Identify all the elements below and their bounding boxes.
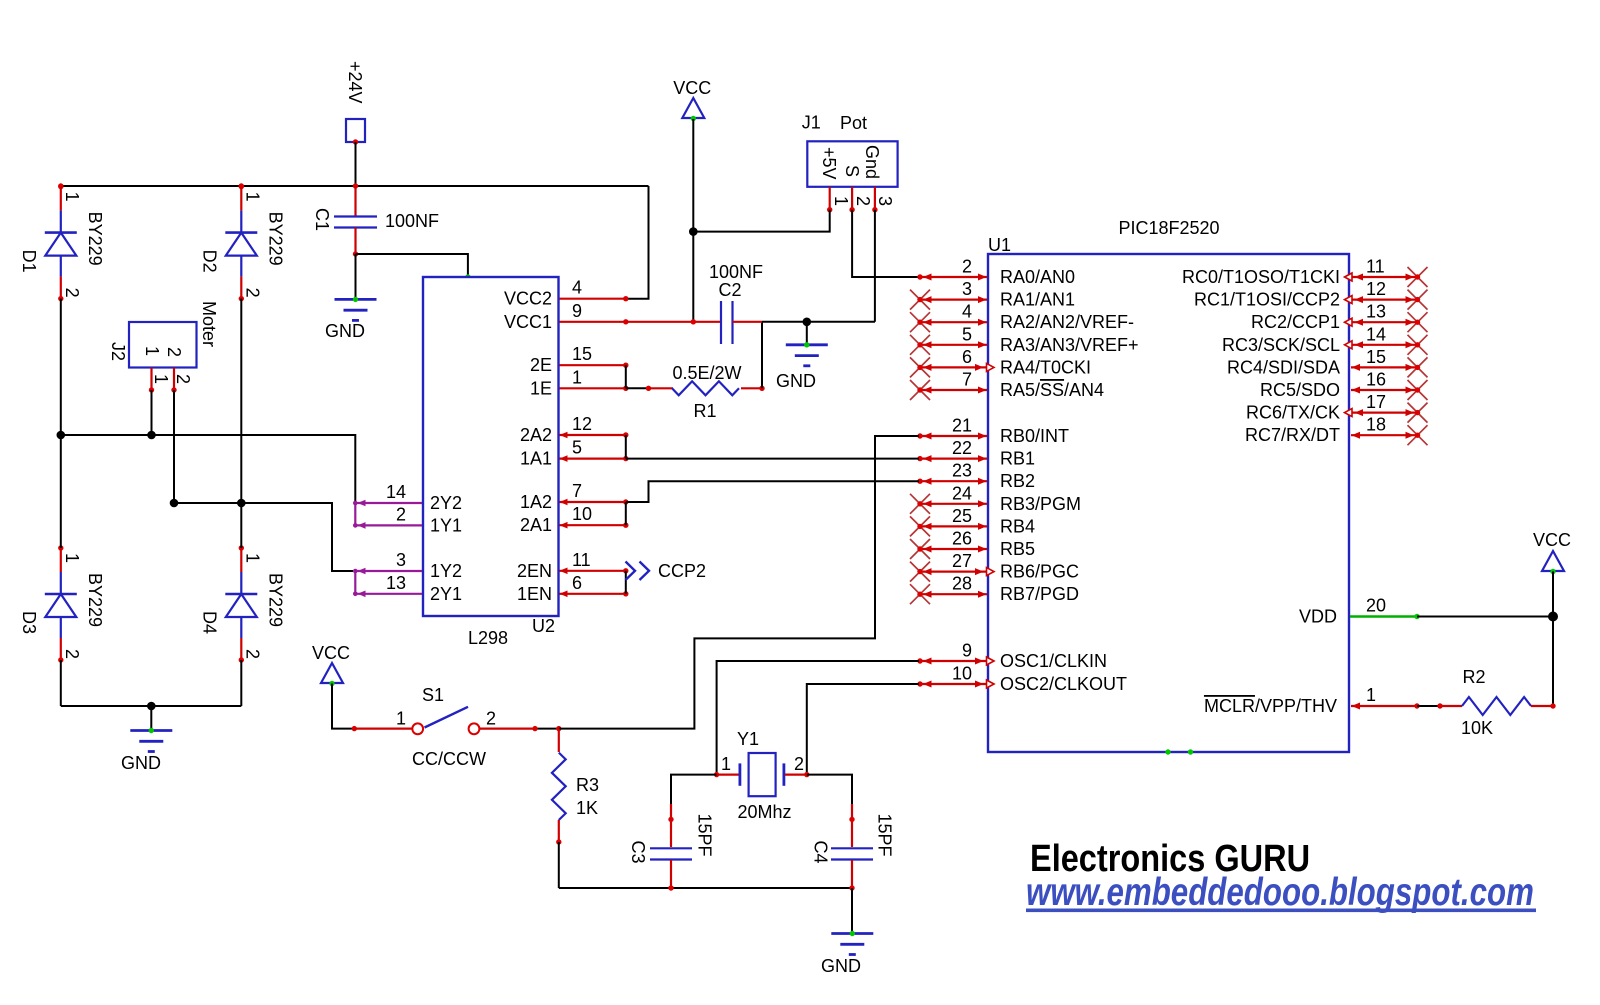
U1 pin 20 VDD (1299, 596, 1420, 627)
diode D2 BY229 (199, 184, 285, 301)
svg-text:25: 25 (952, 506, 972, 526)
wire 1A2-2A1 tie (625, 502, 627, 525)
wire 2Y2-1Y1 tie (354, 503, 356, 525)
svg-text:RB1: RB1 (1000, 449, 1035, 469)
svg-text:BY229: BY229 (265, 573, 285, 627)
wire VCC down (689, 119, 698, 324)
IC U2 L298 body (423, 277, 559, 648)
wire RB2 to 1A2 (626, 481, 919, 502)
svg-text:Moter: Moter (199, 301, 219, 347)
U1 pin 18 RC7 (1245, 415, 1428, 446)
U2 pin 10 2A1 (520, 504, 629, 535)
U2 pin 12 2A2 (520, 414, 629, 445)
capacitor C1 100NF (312, 186, 439, 257)
wire 1Y2-2Y1 tie (354, 571, 356, 594)
svg-text:U1: U1 (988, 235, 1011, 255)
svg-text:2: 2 (62, 649, 82, 659)
svg-text:BY229: BY229 (265, 212, 285, 266)
svg-text:GND: GND (776, 371, 816, 391)
svg-text:J2: J2 (108, 342, 128, 361)
svg-text:VCC1: VCC1 (504, 312, 552, 332)
svg-text:1: 1 (1366, 685, 1376, 705)
svg-text:OSC1/CLKIN: OSC1/CLKIN (1000, 651, 1107, 671)
svg-text:R1: R1 (693, 401, 716, 421)
svg-text:RC5/SDO: RC5/SDO (1260, 380, 1340, 400)
wire OSC2 to crystal (807, 684, 919, 773)
svg-text:12: 12 (572, 414, 592, 434)
U2 pin 15 2E (530, 344, 629, 375)
wire VCC2 tie 2E/1E (625, 365, 627, 388)
U1 pin 11 RC0 (1182, 257, 1428, 288)
ground bottom (821, 931, 873, 976)
svg-text:10K: 10K (1461, 718, 1493, 738)
wire 1E to R1 (626, 386, 651, 391)
U1 pin 25 RB4 (910, 506, 1035, 537)
logo url underline (1026, 909, 1536, 913)
connector J2 Moter (108, 301, 219, 393)
crystal Y1 20Mhz (714, 729, 810, 822)
diode D3 BY229 (19, 545, 105, 662)
power flag VCC top (673, 78, 711, 121)
U1 pin 21 RB0 (917, 416, 1069, 447)
label CCP2 chevrons (626, 561, 707, 581)
svg-text:RB0/INT: RB0/INT (1000, 426, 1069, 446)
svg-text:S1: S1 (422, 685, 444, 705)
svg-text:RC3/SCK/SCL: RC3/SCK/SCL (1222, 335, 1340, 355)
svg-text:2: 2 (396, 504, 406, 524)
svg-text:1: 1 (62, 553, 82, 563)
U1 pin 1 MCLR (1204, 685, 1420, 716)
U2 pin 5 1A1 (520, 438, 629, 469)
U1 pin 28 RB7 (910, 574, 1079, 605)
svg-text:D4: D4 (199, 611, 219, 634)
capacitor C2 100NF (626, 262, 763, 344)
U1 pin 22 RB1 (917, 438, 1035, 469)
svg-text:GND: GND (821, 956, 861, 976)
svg-text:2: 2 (242, 649, 262, 659)
ground bottom-left (121, 728, 172, 773)
svg-text:1K: 1K (576, 798, 598, 818)
ground near C2 (806, 322, 808, 345)
svg-text:2: 2 (486, 709, 496, 729)
svg-text:24: 24 (952, 483, 972, 503)
wire S1 to RB0 net (559, 436, 919, 729)
U1 pin 26 RB5 (910, 529, 1035, 560)
svg-text:RA3/AN3/VREF+: RA3/AN3/VREF+ (1000, 335, 1139, 355)
svg-text:9: 9 (572, 301, 582, 321)
svg-text:L298: L298 (468, 628, 508, 648)
svg-text:2: 2 (62, 288, 82, 298)
svg-text:RA1/AN1: RA1/AN1 (1000, 290, 1075, 310)
svg-text:14: 14 (386, 482, 406, 502)
svg-text:www.embeddedooo.blogspot.com: www.embeddedooo.blogspot.com (1026, 871, 1534, 914)
U1 pin 5 RA3 (910, 324, 1139, 355)
svg-text:BY229: BY229 (85, 573, 105, 627)
U1 pin 23 RB2 (917, 461, 1035, 492)
wire C1 to L298 top (356, 254, 471, 280)
svg-text:4: 4 (572, 278, 582, 298)
svg-text:C4: C4 (811, 841, 831, 864)
U1 pin 6 RA4 (910, 347, 1091, 378)
wire R3 to bottom rail (559, 842, 852, 888)
U2 pin 2 1Y1 (353, 504, 462, 535)
svg-text:1: 1 (242, 192, 262, 202)
svg-text:Y1: Y1 (737, 729, 759, 749)
svg-text:2EN: 2EN (517, 561, 552, 581)
U2 pin 14 2Y2 (353, 482, 462, 513)
svg-text:21: 21 (952, 416, 972, 436)
svg-text:+5V: +5V (819, 147, 839, 180)
U1 pin 13 RC2 (1251, 302, 1428, 333)
svg-text:CC/CCW: CC/CCW (412, 749, 486, 769)
svg-text:1: 1 (572, 367, 582, 387)
power flag +24V (345, 61, 365, 145)
wire J1 pin3 to gnd line (874, 210, 876, 322)
svg-text:C2: C2 (718, 280, 741, 300)
wire C1 to ground (355, 254, 357, 299)
U1 pin 15 RC4 (1227, 347, 1428, 378)
svg-text:RC0/T1OSO/T1CKI: RC0/T1OSO/T1CKI (1182, 267, 1340, 287)
svg-text:100NF: 100NF (385, 211, 439, 231)
svg-text:23: 23 (952, 461, 972, 481)
svg-text:RA5/SS/AN4: RA5/SS/AN4 (1000, 380, 1104, 400)
svg-text:VCC: VCC (1533, 530, 1571, 550)
svg-text:Pot: Pot (840, 113, 867, 133)
svg-text:2: 2 (173, 374, 193, 384)
svg-text:15PF: 15PF (695, 814, 715, 857)
wire D1 to D3 (60, 299, 62, 548)
svg-text:2E: 2E (530, 355, 552, 375)
svg-text:15PF: 15PF (875, 814, 895, 857)
svg-text:5: 5 (572, 438, 582, 458)
svg-text:RA0/AN0: RA0/AN0 (1000, 267, 1075, 287)
svg-text:1Y1: 1Y1 (430, 515, 462, 535)
svg-text:2A2: 2A2 (520, 425, 552, 445)
wire 2A2-1A1 tie (625, 435, 627, 459)
switch S1 CC/CCW (354, 685, 561, 769)
U1 pin 4 RA2 (910, 302, 1134, 333)
svg-text:VCC: VCC (673, 78, 711, 98)
svg-text:1A2: 1A2 (520, 492, 552, 512)
capacitor C3 15PF (628, 775, 717, 891)
wire VCC to S1 (332, 684, 357, 732)
connector J1 Pot (802, 113, 898, 213)
svg-text:RA2/AN2/VREF-: RA2/AN2/VREF- (1000, 312, 1134, 332)
wire C4 to ground (851, 888, 853, 934)
power flag VCC switch (312, 643, 350, 686)
ground under C1 (325, 297, 377, 341)
U1 pin 16 RC5 (1260, 370, 1428, 401)
svg-text:S: S (842, 165, 862, 177)
wire C2 to J1 Gnd (762, 318, 875, 327)
svg-text:1: 1 (62, 192, 82, 202)
wire +24V to rail (355, 142, 357, 186)
svg-text:1: 1 (721, 754, 731, 774)
U2 pin 3 1Y2 (353, 550, 462, 581)
svg-text:1EN: 1EN (517, 584, 552, 604)
svg-text:12: 12 (1366, 279, 1386, 299)
U2 pin 9 VCC1 (504, 301, 629, 332)
svg-text:1A1: 1A1 (520, 449, 552, 469)
U1 pin 10 OSC2 (917, 664, 1127, 695)
wire rail to VCC2 (626, 186, 649, 299)
svg-text:5: 5 (962, 324, 972, 344)
svg-text:4: 4 (962, 302, 972, 322)
U1 pin 17 RC6 (1246, 392, 1428, 423)
wire diodes bottom rail (61, 660, 242, 730)
power flag VCC right (1533, 530, 1571, 574)
U2 pin 1 1E (530, 367, 629, 398)
svg-text:VCC2: VCC2 (504, 289, 552, 309)
svg-text:27: 27 (952, 551, 972, 571)
resistor R2 10K (1417, 667, 1556, 738)
wire R1 to C2 right (761, 322, 763, 389)
svg-text:MCLR/VPP/THV: MCLR/VPP/THV (1204, 696, 1337, 716)
svg-text:9: 9 (962, 641, 972, 661)
svg-text:Gnd: Gnd (862, 145, 882, 179)
svg-text:11: 11 (572, 550, 591, 570)
U2 pin 6 1EN (517, 573, 629, 604)
svg-text:2Y2: 2Y2 (430, 493, 462, 513)
wire VCC to R2 (1548, 572, 1558, 707)
U1 pin 12 RC1 (1194, 279, 1428, 310)
svg-text:1E: 1E (530, 378, 552, 398)
U1 pin 9 OSC1 (917, 641, 1107, 672)
svg-text:R2: R2 (1462, 667, 1485, 687)
wire J1 pin1 to VCC (693, 210, 829, 232)
svg-text:+24V: +24V (345, 61, 365, 104)
svg-text:RB3/PGM: RB3/PGM (1000, 494, 1081, 514)
svg-text:R3: R3 (576, 775, 599, 795)
svg-text:RC7/RX/DT: RC7/RX/DT (1245, 425, 1340, 445)
U1 pin 27 RB6 (910, 551, 1079, 582)
svg-text:11: 11 (1366, 257, 1385, 277)
wire J2 pin1 down (151, 390, 153, 435)
svg-text:6: 6 (962, 347, 972, 367)
svg-text:1Y2: 1Y2 (430, 561, 462, 581)
svg-text:RB6/PGC: RB6/PGC (1000, 562, 1079, 582)
svg-text:22: 22 (952, 438, 972, 458)
svg-text:2: 2 (962, 257, 972, 277)
svg-text:J1: J1 (802, 113, 821, 133)
U2 pin 7 1A2 (520, 481, 629, 512)
svg-text:U2: U2 (532, 616, 555, 636)
svg-text:RB4: RB4 (1000, 516, 1035, 536)
wire 2EN-1EN tie (625, 571, 627, 594)
svg-text:18: 18 (1366, 415, 1386, 435)
U1 pin 14 RC3 (1222, 324, 1428, 355)
svg-text:RC2/CCP1: RC2/CCP1 (1251, 312, 1340, 332)
svg-text:1: 1 (831, 196, 851, 206)
svg-text:1: 1 (142, 346, 162, 356)
svg-text:10: 10 (572, 504, 592, 524)
svg-text:2: 2 (853, 196, 873, 206)
svg-text:RC1/T1OSI/CCP2: RC1/T1OSI/CCP2 (1194, 290, 1340, 310)
svg-text:CCP2: CCP2 (658, 561, 706, 581)
svg-text:C3: C3 (628, 841, 648, 864)
svg-text:PIC18F2520: PIC18F2520 (1118, 218, 1219, 238)
svg-text:2: 2 (242, 288, 262, 298)
svg-text:13: 13 (386, 573, 406, 593)
svg-text:RA4/T0CKI: RA4/T0CKI (1000, 357, 1091, 377)
svg-text:20: 20 (1366, 596, 1386, 616)
logo blog url (1026, 871, 1534, 914)
U2 pin 11 2EN (517, 550, 629, 581)
svg-text:17: 17 (1366, 392, 1386, 412)
svg-text:7: 7 (962, 370, 972, 390)
svg-text:GND: GND (325, 321, 365, 341)
svg-text:15: 15 (572, 344, 592, 364)
U1 pin 24 RB3 (910, 483, 1081, 514)
resistor R3 1K (552, 729, 599, 845)
svg-text:20Mhz: 20Mhz (737, 802, 791, 822)
wire motor net2 to L298 1Y2/2Y1 (170, 499, 353, 571)
wire D2 to D4 (240, 299, 242, 548)
svg-text:GND: GND (121, 753, 161, 773)
svg-text:13: 13 (1366, 302, 1386, 322)
resistor R1 0.5E/2W (649, 363, 765, 421)
U2 pin 4 VCC2 (504, 278, 629, 309)
svg-text:2: 2 (794, 754, 804, 774)
svg-text:28: 28 (952, 574, 972, 594)
wire J1 pin2 to RA0 (852, 210, 919, 277)
svg-text:OSC2/CLKOUT: OSC2/CLKOUT (1000, 674, 1127, 694)
wire +24V rail (58, 183, 648, 188)
wire motor net1 to L298 2Y2/1Y1 (57, 431, 356, 503)
svg-text:RB5: RB5 (1000, 539, 1035, 559)
IC U1 PIC18F2520 body (988, 218, 1349, 755)
svg-text:D2: D2 (199, 250, 219, 273)
svg-text:D3: D3 (19, 611, 39, 634)
diode D4 BY229 (199, 545, 285, 662)
svg-text:RC4/SDI/SDA: RC4/SDI/SDA (1227, 357, 1340, 377)
svg-text:RC6/TX/CK: RC6/TX/CK (1246, 403, 1340, 423)
svg-text:0.5E/2W: 0.5E/2W (672, 363, 741, 383)
svg-text:C1: C1 (312, 208, 332, 231)
svg-text:BY229: BY229 (85, 212, 105, 266)
svg-text:3: 3 (396, 550, 406, 570)
svg-text:3: 3 (875, 196, 895, 206)
svg-text:2: 2 (164, 347, 184, 357)
svg-text:VDD: VDD (1299, 607, 1337, 627)
diode D1 BY229 (19, 184, 105, 301)
svg-text:1: 1 (396, 709, 406, 729)
U1 pin 7 RA5 (910, 370, 1104, 401)
U1 pin 3 RA1 (910, 279, 1075, 310)
svg-text:2Y1: 2Y1 (430, 584, 462, 604)
svg-text:7: 7 (572, 481, 582, 501)
svg-text:15: 15 (1366, 347, 1386, 367)
svg-text:2A1: 2A1 (520, 515, 552, 535)
svg-text:RB2: RB2 (1000, 471, 1035, 491)
wire RB1 to 1A1 (626, 458, 919, 460)
wire VDD to VCC (1417, 616, 1553, 618)
U2 pin 13 2Y1 (353, 573, 462, 604)
U1 pin 2 RA0 (917, 257, 1075, 288)
svg-text:10: 10 (952, 664, 972, 684)
svg-text:100NF: 100NF (709, 262, 763, 282)
svg-text:6: 6 (572, 573, 582, 593)
svg-text:14: 14 (1366, 324, 1386, 344)
wire J2 pin2 down (173, 390, 175, 503)
wire OSC1 to crystal (717, 661, 919, 773)
svg-text:VCC: VCC (312, 643, 350, 663)
svg-text:26: 26 (952, 529, 972, 549)
svg-text:16: 16 (1366, 370, 1386, 390)
logo Electronics GURU (1030, 838, 1310, 880)
svg-text:RB7/PGD: RB7/PGD (1000, 584, 1079, 604)
svg-text:1: 1 (151, 374, 171, 384)
svg-text:1: 1 (242, 553, 262, 563)
svg-text:3: 3 (962, 279, 972, 299)
capacitor C4 15PF (807, 775, 895, 891)
svg-text:D1: D1 (19, 250, 39, 273)
